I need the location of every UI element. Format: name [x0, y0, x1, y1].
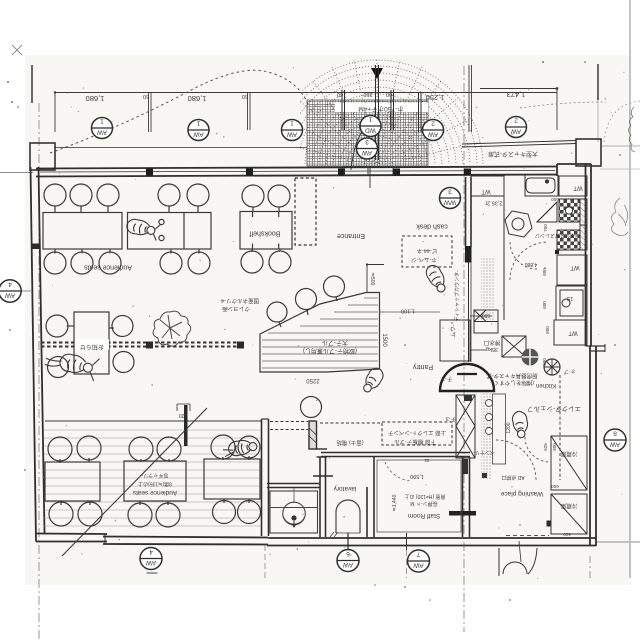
svg-text:2250: 2250 — [306, 377, 320, 383]
svg-text:1S: 1S — [566, 295, 573, 301]
svg-text:AW: AW — [413, 562, 424, 569]
svg-text:厨房器具キャスタ-式: 厨房器具キャスタ-式 — [486, 372, 538, 380]
svg-text:WD: WD — [365, 127, 376, 134]
svg-text:60: 60 — [242, 93, 248, 99]
svg-text:上部 エレクト-ンベンチ: 上部 エレクト-ンベンチ — [388, 429, 446, 437]
svg-text:1: 1 — [196, 120, 200, 127]
svg-text:AW: AW — [609, 441, 620, 448]
svg-text:1: 1 — [368, 116, 372, 123]
svg-text:冷蔵庫: 冷蔵庫 — [560, 502, 577, 510]
svg-text:600: 600 — [551, 484, 559, 489]
svg-text:AW: AW — [96, 129, 107, 136]
svg-text:チ-2: チ-2 — [442, 375, 452, 382]
svg-text:1,680: 1,680 — [188, 94, 207, 103]
svg-text:Kitchen: Kitchen — [536, 382, 556, 388]
svg-text:ホ-ムペ-ジ: ホ-ムペ-ジ — [411, 256, 437, 263]
svg-text:(飲物テ-ブル兼用し): (飲物テ-ブル兼用し) — [303, 347, 357, 355]
svg-text:Entrance: Entrance — [337, 232, 365, 239]
svg-text:ピ-44-ネ: ピ-44-ネ — [416, 247, 437, 254]
svg-text:チ-3: チ-3 — [446, 415, 456, 422]
svg-text:1: 1 — [100, 118, 104, 125]
svg-text:350: 350 — [363, 91, 372, 97]
svg-text:AW: AW — [361, 149, 372, 156]
svg-text:600: 600 — [551, 197, 559, 202]
svg-text:窓ギャラリ-: 窓ギャラリ- — [141, 472, 168, 479]
svg-text:お知らせ: お知らせ — [80, 343, 104, 351]
svg-text:2,35.2t: 2,35.2t — [485, 200, 502, 206]
svg-text:AW: AW — [427, 131, 438, 138]
svg-text:3: 3 — [448, 188, 452, 195]
svg-text:国産ネルクリ-4: 国産ネルクリ-4 — [221, 297, 259, 305]
svg-text:1,100: 1,100 — [401, 308, 415, 314]
svg-text:120: 120 — [179, 412, 188, 418]
svg-text:7: 7 — [416, 551, 420, 558]
svg-text:600: 600 — [552, 443, 557, 451]
svg-text:600: 600 — [542, 268, 547, 276]
svg-text:ムウ-: ムウ- — [449, 324, 457, 337]
svg-text:ホ-750ホテ+4M: ホ-750ホテ+4M — [358, 105, 403, 113]
svg-text:大型キャスタ-式扉: 大型キャスタ-式扉 — [488, 150, 538, 158]
svg-text:エレクタ-シェルフ: エレクタ-シェルフ — [527, 405, 581, 414]
svg-text:下部 棚板テ-ブル: 下部 棚板テ-ブル — [394, 438, 436, 446]
svg-text:2: 2 — [514, 117, 518, 124]
svg-text:1,473: 1,473 — [507, 90, 526, 99]
svg-text:≒500: ≒500 — [369, 273, 375, 286]
svg-text:長押ン-ト М: 長押ン-ト М — [410, 500, 437, 507]
svg-text:ペン十リ-: ペン十リ- — [473, 449, 495, 456]
svg-text:4: 4 — [8, 281, 12, 288]
svg-text:Pantry: Pantry — [412, 363, 433, 370]
svg-text:大テ-ブル: 大テ-ブル — [322, 339, 348, 347]
svg-text:1200: 1200 — [506, 422, 512, 433]
svg-text:AW: AW — [4, 292, 15, 299]
svg-text:AW: AW — [145, 559, 156, 566]
svg-text:600: 600 — [545, 326, 550, 334]
svg-text:冷蔵庫: 冷蔵庫 — [560, 450, 577, 458]
svg-text:8: 8 — [613, 430, 617, 437]
svg-text:WT: WT — [568, 330, 578, 336]
svg-text:6: 6 — [346, 550, 350, 557]
svg-text:3: 3 — [365, 138, 369, 145]
svg-text:1,680: 1,680 — [86, 94, 105, 103]
svg-text:625: 625 — [543, 443, 548, 451]
svg-text:cash desk: cash desk — [416, 223, 448, 230]
svg-text:AW: AW — [193, 131, 204, 138]
svg-text:600: 600 — [563, 532, 571, 537]
svg-text:排水口: 排水口 — [484, 339, 501, 347]
svg-text:Washing place: Washing place — [500, 490, 543, 497]
svg-text:AW: AW — [286, 131, 297, 138]
svg-text:Staff Room: Staff Room — [408, 512, 440, 519]
svg-text:750: 750 — [543, 224, 548, 232]
svg-text:1,590: 1,590 — [410, 473, 424, 479]
svg-text:WW: WW — [443, 199, 456, 206]
svg-text:ディシャッブカウンタ-: ディシャッブカウンタ- — [454, 270, 461, 322]
svg-text:≒1,440: ≒1,440 — [392, 494, 398, 511]
svg-text:1500: 1500 — [381, 333, 387, 347]
svg-text:1: 1 — [290, 120, 294, 127]
svg-text:8席(≒135)の上: 8席(≒135)の上 — [138, 481, 172, 488]
svg-text:ォ-プ: ォ-プ — [564, 368, 576, 374]
svg-text:600: 600 — [542, 358, 547, 366]
svg-text:4,880: 4,880 — [525, 261, 538, 267]
svg-text:Audience seats: Audience seats — [132, 489, 177, 496]
svg-text:lavatory: lavatory — [333, 485, 357, 492]
svg-text:WT: WT — [481, 188, 491, 194]
svg-text:1,250: 1,250 — [426, 93, 445, 102]
svg-text:Audience seats: Audience seats — [84, 264, 132, 271]
svg-text:32: 32 — [424, 458, 430, 463]
svg-text:35kg: 35kg — [486, 346, 498, 352]
svg-text:60: 60 — [143, 93, 149, 99]
svg-text:クレヨン画: クレヨン画 — [222, 305, 250, 312]
svg-text:AD 点検口: AD 点検口 — [501, 474, 524, 481]
svg-text:(掃除をしやすく): (掃除をしやすく) — [492, 379, 534, 387]
svg-text:貴重 (H=120) の上: 貴重 (H=120) の上 — [405, 493, 446, 500]
svg-text:AW: AW — [342, 561, 353, 568]
svg-text:(富士) 電話: (富士) 電話 — [336, 439, 364, 447]
svg-text:WT: WT — [570, 264, 580, 270]
svg-text:%ク%スガスレンジ: %ク%スガスレンジ — [535, 232, 579, 239]
svg-text:AW: AW — [510, 128, 521, 135]
svg-text:Bookshelf: Bookshelf — [250, 230, 281, 237]
svg-text:WT: WT — [573, 185, 583, 191]
svg-text:2: 2 — [431, 120, 435, 127]
svg-text:4: 4 — [149, 548, 153, 555]
svg-text:600: 600 — [542, 301, 547, 309]
